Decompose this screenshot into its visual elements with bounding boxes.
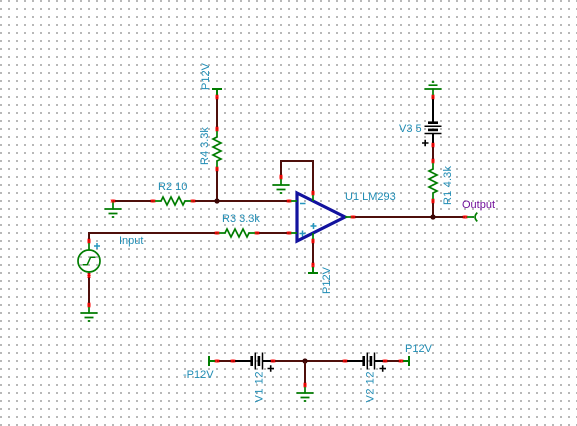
wire V3 to R1	[432, 145, 434, 161]
battery V1	[233, 353, 273, 370]
wire ground to R2	[113, 200, 153, 202]
pin cross R3 pin 2	[255, 232, 259, 235]
pin cross R4 pin 2	[216, 167, 219, 171]
wire P12V to R4	[216, 97, 218, 129]
pin cross R3 pin 1	[215, 232, 219, 235]
plus sign V3	[422, 140, 429, 146]
terminal P12V below opamp	[308, 266, 318, 273]
svg-text:P12V: P12V	[200, 62, 212, 90]
junction A	[214, 198, 219, 203]
terminal P12V top	[212, 89, 222, 96]
pin cross R2 pin 1	[151, 200, 155, 203]
ground left	[105, 201, 122, 217]
resistor R1	[429, 161, 437, 201]
wire junction C to ground	[304, 361, 306, 385]
wire source to ground	[88, 273, 90, 305]
pin cross R1 pin 1	[432, 159, 435, 163]
wire input corner	[89, 233, 217, 241]
wire opamp output	[353, 216, 465, 218]
pin cross P12V terminal mid	[312, 263, 315, 267]
wire R1 to junction B	[432, 201, 434, 217]
pin cross R1 pin 2	[432, 199, 435, 203]
svg-text:Input: Input	[119, 235, 143, 247]
op-amp U1	[289, 193, 353, 241]
wire R3 to opamp plus input	[257, 232, 289, 234]
pin cross U1 supply pin	[312, 239, 315, 243]
svg-text:U1 LM293: U1 LM293	[345, 191, 396, 203]
terminal P12V bottom right	[402, 356, 409, 366]
pin cross source top	[88, 239, 91, 243]
ground below source	[81, 305, 98, 321]
pin cross U1 inverting input	[287, 200, 291, 203]
wire ground bracket to opamp top pin	[281, 161, 313, 193]
svg-text:R4 3.3k: R4 3.3k	[199, 127, 211, 165]
ground above opamp	[273, 177, 290, 193]
pin cross Output terminal	[463, 216, 467, 219]
terminal -P12V bottom left	[209, 356, 216, 366]
ground bottom center	[297, 385, 314, 401]
battery V2	[345, 353, 385, 370]
pin cross ground left	[111, 200, 115, 203]
plus sign source	[94, 243, 100, 249]
resistor R2	[153, 197, 193, 205]
pin cross ground below source	[88, 303, 91, 307]
svg-text:Output: Output	[462, 199, 495, 211]
resistor R4	[213, 129, 221, 169]
wire R2 to opamp minus input	[193, 200, 289, 202]
svg-text:P12V: P12V	[321, 266, 333, 294]
svg-text:V2 12: V2 12	[365, 372, 377, 403]
wire opamp to P12V terminal	[312, 241, 314, 265]
svg-text:V1 12: V1 12	[254, 372, 266, 403]
pin cross P12V terminal top	[216, 95, 219, 99]
svg-text:P12V: P12V	[405, 343, 433, 355]
pin cross V1 negative	[231, 360, 235, 363]
terminal Output	[466, 213, 477, 222]
pin cross V1 positive	[271, 360, 275, 363]
wire terminal to V1	[217, 360, 233, 362]
wire V1 to junction C to V2	[273, 360, 345, 362]
pin cross ground above opamp	[280, 175, 283, 179]
svg-text:R1 4.3k: R1 4.3k	[442, 166, 454, 206]
pin cross -P12V terminal	[215, 360, 219, 363]
pin cross U1 ground pin	[312, 191, 315, 195]
junction B	[430, 214, 435, 219]
ground above V3	[425, 82, 442, 97]
svg-text:R3 3.3k: R3 3.3k	[222, 213, 260, 225]
pin cross V3 negative	[432, 95, 435, 99]
plus sign V2	[380, 365, 387, 371]
pin cross source bottom	[88, 273, 91, 277]
pin cross ground bottom	[304, 383, 307, 387]
pin cross U1 non-inverting input	[287, 232, 291, 235]
pin cross V2 positive	[383, 360, 387, 363]
resistor R3	[217, 229, 257, 237]
svg-text:-P12V: -P12V	[183, 369, 214, 381]
wire R4 to junction A	[216, 169, 218, 201]
plus sign V1	[268, 365, 275, 371]
pin cross P12V terminal right	[399, 360, 403, 363]
pin cross R2 pin 2	[191, 200, 195, 203]
pin cross R4 pin 1	[216, 127, 219, 131]
source VG1	[78, 241, 100, 274]
battery V3	[425, 97, 442, 145]
pin cross U1 output	[351, 216, 355, 219]
svg-text:V3 5: V3 5	[399, 123, 422, 135]
junction C	[302, 358, 307, 363]
pin cross V3 positive	[432, 143, 435, 147]
svg-text:R2 10: R2 10	[158, 181, 187, 193]
pin cross V2 negative	[343, 360, 347, 363]
wire V2 to terminal P12V	[385, 360, 401, 362]
